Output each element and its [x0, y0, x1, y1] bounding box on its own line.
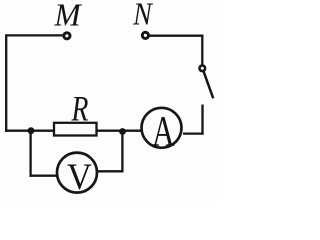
voltmeter V body circle — [57, 153, 97, 193]
terminal N — [142, 32, 148, 38]
svg-text:A: A — [152, 108, 175, 156]
wire top-left horizontal from left corner to terminal M — [5, 34, 63, 36]
wire left vertical — [5, 34, 7, 131]
svg-text:V: V — [67, 156, 92, 197]
wire voltmeter right branch horizontal (to voltmeter) — [94, 170, 124, 172]
terminal M — [64, 33, 70, 39]
wire voltmeter right branch vertical (junction down) — [121, 131, 123, 173]
junction dot right (node between R and ammeter) — [119, 128, 126, 135]
wire right vertical lower (switch bottom down to right corner) — [201, 105, 203, 135]
svg-text:R: R — [71, 88, 89, 128]
switch S blade (open) — [204, 72, 214, 99]
wire bottom main horizontal (left corner through R to ammeter) — [5, 130, 141, 132]
wire right bottom horizontal (right corner to ammeter) — [183, 132, 204, 134]
wire voltmeter left branch vertical (junction down) — [29, 130, 31, 177]
wire voltmeter left branch horizontal (to voltmeter) — [30, 175, 61, 177]
svg-text:N: N — [132, 0, 154, 32]
wire top-right horizontal from terminal N to right corner — [149, 35, 203, 37]
switch S pivot circle — [200, 66, 206, 72]
svg-text:M: M — [54, 0, 83, 33]
ammeter A body circle — [142, 108, 182, 148]
wire right vertical upper (corner down to switch pivot) — [201, 35, 203, 65]
resistor R body — [54, 123, 97, 136]
junction dot left (node under R label) — [28, 127, 35, 134]
